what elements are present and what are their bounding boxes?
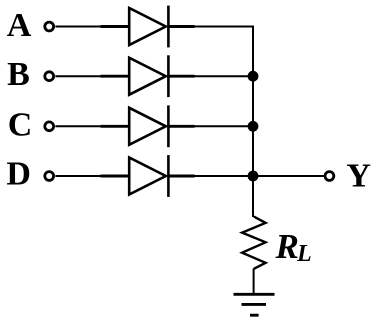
svg-text:D: D — [6, 156, 31, 193]
svg-text:B: B — [7, 56, 30, 93]
svg-text:C: C — [8, 107, 33, 144]
svg-text:A: A — [7, 7, 32, 44]
svg-text:Y: Y — [346, 157, 371, 194]
